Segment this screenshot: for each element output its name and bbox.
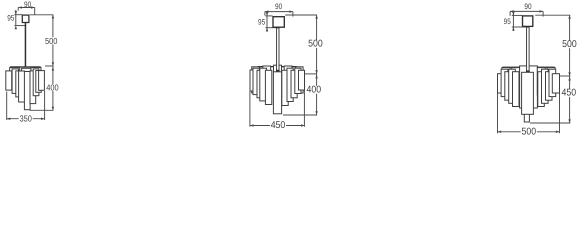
- fig3 shade left f5: [513, 72, 520, 107]
- svg-text:90: 90: [275, 2, 283, 11]
- fig3 arm bar: [502, 67, 554, 68]
- fig2 canopy: [273, 17, 284, 28]
- fig3 shade left f4: [509, 69, 516, 103]
- fig3 shade right g2: [549, 69, 556, 96]
- fig1 shade right f7: [36, 71, 41, 93]
- svg-text:500: 500: [308, 39, 323, 50]
- fig1 shade left f3: [16, 71, 22, 97]
- fig3 center tube: [524, 105, 529, 122]
- fig1 dim line 500 with arrows: [52, 15, 54, 66]
- fig1 shade outer right: [39, 71, 45, 91]
- fig1 dim line 95 with arrows: [15, 10, 17, 26]
- fig2 shade right g5: [282, 70, 288, 105]
- fig1 shade left f4: [19, 71, 25, 102]
- fig3 shade back right2: [537, 68, 545, 95]
- fig2 ext line 90 left: [264, 12, 266, 16]
- fig1 dim line 350 with arrows: [7, 118, 45, 120]
- fig2 dim line 400 with arrows: [316, 74, 318, 115]
- fig2 dim line 500 with arrows: [316, 15, 318, 74]
- svg-text:500: 500: [45, 36, 57, 46]
- fig1 ext line 95 bottom: [14, 25, 25, 27]
- fig2 rod junction: [276, 70, 280, 73]
- fig1 ext line 400 bottom: [30, 109, 54, 111]
- svg-text:400: 400: [307, 84, 322, 95]
- fig1 shade back left: [10, 68, 20, 90]
- fig2 ext line 500 top: [285, 14, 317, 16]
- svg-text:350: 350: [20, 114, 32, 124]
- fig1 dim line 90 with arrows: [18, 7, 35, 9]
- fig1 shade center front low: [24, 72, 30, 110]
- fig3 shade right g4: [542, 69, 549, 103]
- fig2 shade back right2: [284, 66, 292, 96]
- fig2 dim line 95 with arrows: [266, 13, 268, 31]
- fig3 shade left f1: [498, 74, 505, 93]
- fig1 shade outer left: [6, 71, 12, 90]
- svg-text:90: 90: [524, 2, 532, 11]
- fig3 dim line 90 with arrows: [510, 10, 543, 12]
- fig2 shade left f5: [265, 70, 271, 104]
- fig3 ext line 90 right: [542, 11, 544, 16]
- fig2 arm bar: [258, 66, 297, 67]
- fig2 shade left f3: [257, 70, 263, 98]
- fig3 ext line 90 left: [509, 11, 511, 15]
- fig2 shade left f2: [253, 68, 259, 94]
- fig2 shade left f1: [250, 70, 256, 91]
- fig2 dim text 450: [270, 122, 286, 130]
- fig2 shade back left2: [263, 66, 271, 96]
- fig1 shade right f6: [33, 69, 39, 96]
- svg-text:95: 95: [504, 17, 512, 26]
- fig1 ext line 350 left: [6, 92, 8, 121]
- fig3 shade back left2: [512, 68, 520, 95]
- fig2 ext line 400 top: [305, 73, 317, 75]
- fig1 shade right f5: [30, 71, 36, 104]
- fig3 rod junction: [526, 70, 530, 73]
- fig1 ext line 95 top: [14, 14, 22, 16]
- fig2 shade right g1: [299, 70, 305, 90]
- fig3 dim line 450 with arrows: [569, 76, 571, 123]
- fig2 shade center front: [273, 72, 281, 114]
- fig3 shade right g1: [552, 74, 559, 93]
- fig3 ext line 500 bottom right: [559, 94, 561, 134]
- fig1 ext line 350 right: [44, 91, 46, 120]
- fig1 shade back right: [31, 68, 41, 89]
- fig2 dim text 400: [306, 86, 322, 94]
- svg-text:95: 95: [7, 14, 15, 23]
- fig3 dim line 500 with arrows: [569, 15, 571, 76]
- fig2 ext line 400 bottom: [283, 114, 317, 116]
- fig3 ext line 500 bottom left: [497, 94, 499, 134]
- svg-text:500: 500: [562, 39, 577, 50]
- fig3 dim text 500 vertical: [561, 40, 577, 48]
- fig2 shade right g3: [291, 70, 297, 98]
- fig3 ext line 500 top: [535, 14, 570, 16]
- fig1 dim line 400 with arrows: [52, 66, 54, 110]
- fig2 shade left f4: [260, 68, 267, 101]
- fig3 rod: [527, 27, 530, 73]
- fig2 shade right g2: [295, 68, 301, 93]
- fig2 shade back left1: [252, 67, 260, 93]
- fig2 ext line 450 left: [249, 92, 251, 127]
- fig3 shade center back: [520, 66, 538, 108]
- fig3 shade back left1: [502, 68, 510, 93]
- fig3 ext line 450 top: [559, 75, 571, 77]
- fig2 ext line 95 top: [265, 15, 272, 17]
- fig3 shade right g3: [546, 72, 553, 101]
- fig3 ext line 95 top: [512, 14, 522, 16]
- fig3 shade center front: [522, 72, 534, 114]
- fig3 shade left f3: [505, 72, 512, 101]
- svg-text:95: 95: [258, 18, 266, 27]
- svg-text:450: 450: [271, 120, 286, 131]
- svg-text:400: 400: [46, 83, 58, 93]
- fig2 ext line 90 right: [292, 12, 294, 17]
- fig2 shade back right1: [295, 67, 303, 93]
- fig2 ext line 450 right: [303, 91, 305, 127]
- svg-text:500: 500: [522, 127, 537, 138]
- fig3 canopy: [523, 16, 533, 27]
- fig2 dim line 450 with arrows: [250, 125, 305, 127]
- fig1 ext line 90 right: [34, 8, 36, 15]
- fig1 dim text 350: [19, 115, 33, 122]
- fig3 dim line 500 bottom with arrows: [498, 131, 560, 133]
- fig2 shade right g4: [287, 68, 293, 101]
- fig1 canopy: [22, 15, 29, 22]
- fig2 ext line 95 bottom: [265, 27, 277, 29]
- fig1 rod: [25, 23, 27, 68]
- fig1 dim text 500: [44, 37, 58, 44]
- fig1 ext line 500 top: [30, 14, 54, 16]
- fig3 dim text 450: [561, 89, 577, 97]
- fig3 dim line 95 with arrows: [512, 13, 514, 31]
- fig1 ext line 90 left: [17, 8, 19, 11]
- fig2 dim text 500: [307, 40, 323, 48]
- fig3 ext line 450 bottom: [530, 122, 570, 124]
- fig1 shade center back: [22, 68, 31, 98]
- fig3 dim text 500 bottom: [521, 128, 537, 136]
- fig3 ext line 95 bottom: [512, 26, 527, 28]
- fig3 shade right g5: [538, 72, 545, 107]
- svg-text:450: 450: [562, 88, 577, 99]
- fig2 rod: [277, 28, 279, 72]
- fig1 dim text 400: [45, 84, 59, 91]
- fig2 dim line 90 with arrows: [265, 11, 293, 13]
- fig1 ext line 400 top: [45, 65, 54, 67]
- fig1 shade left f2: [12, 69, 18, 94]
- fig1 arm bar: [10, 66, 41, 67]
- fig2 shade center back: [274, 65, 282, 91]
- fig3 shade left f2: [501, 69, 508, 96]
- fig3 shade back right1: [547, 68, 555, 93]
